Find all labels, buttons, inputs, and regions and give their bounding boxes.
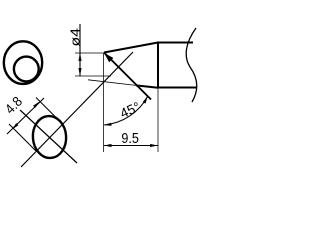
perpendicular centerline bbox=[20, 110, 77, 163]
extension line upper (4.8) bbox=[36, 98, 59, 121]
tip bottom taper line (thin hidden-profile part) bbox=[88, 80, 137, 86]
extension line from shank down bbox=[157, 88, 159, 152]
dim line 9.5 bbox=[104, 145, 158, 147]
dim line 4.8 bbox=[7, 98, 44, 134]
45 degree dimension arc bbox=[104, 96, 148, 125]
arrow left (9.5) bbox=[104, 144, 112, 147]
arc arrow bottom-left bbox=[104, 123, 112, 126]
arrow right (9.5) bbox=[150, 144, 158, 147]
S-shaped break line bbox=[186, 28, 196, 102]
svg-text:9.5: 9.5 bbox=[121, 130, 139, 147]
svg-text:4.8: 4.8 bbox=[2, 93, 26, 117]
shank left vertical edge bbox=[157, 42, 159, 89]
projection centerline to side view bbox=[21, 52, 133, 167]
shank bottom horizontal edge bbox=[157, 87, 196, 89]
dim line for diameter 4 bbox=[79, 24, 81, 76]
extension line bottom (dia4) bbox=[75, 75, 111, 77]
bevel face ellipse bbox=[31, 115, 67, 159]
svg-text:ø4: ø4 bbox=[67, 28, 82, 47]
svg-text:45°: 45° bbox=[118, 99, 143, 121]
outer circle of tip end view bbox=[4, 41, 42, 84]
arc arrow top-right bbox=[143, 96, 148, 103]
bevel face edge line bbox=[104, 53, 151, 100]
extension line from tip point down bbox=[103, 53, 105, 152]
arrowhead at tip point on bevel line bbox=[104, 53, 114, 63]
tip top taper line bbox=[104, 43, 158, 53]
arrow lower-left (4.8) bbox=[12, 123, 18, 129]
arrow up (dia4) bbox=[78, 53, 81, 61]
extension line lower (4.8) bbox=[9, 124, 36, 151]
extension line top (dia4) bbox=[75, 52, 104, 54]
shank top horizontal edge bbox=[157, 42, 193, 44]
arrow down (dia4) bbox=[78, 68, 81, 76]
arrow upper-right (4.8) bbox=[33, 102, 39, 108]
tip bottom taper line (outline part) bbox=[136, 85, 158, 87]
inner circle of tip end view bbox=[14, 57, 39, 82]
